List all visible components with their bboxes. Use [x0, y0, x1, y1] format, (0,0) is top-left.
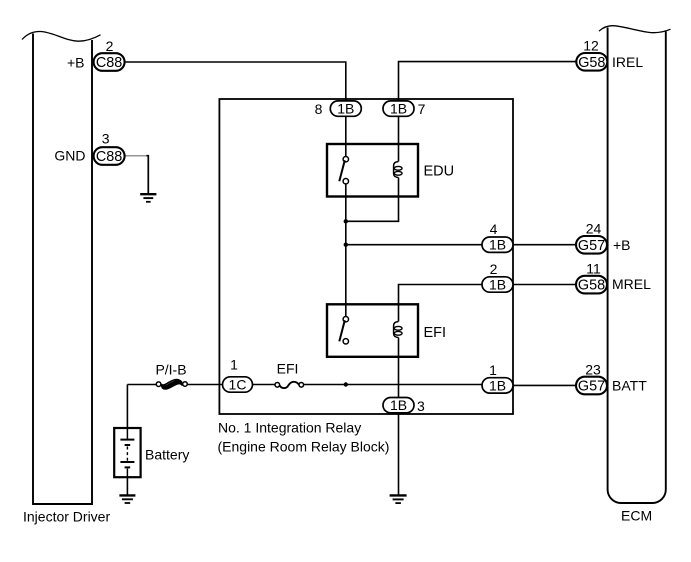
svg-text:23: 23	[585, 362, 601, 378]
connector G57 pin 24	[576, 236, 607, 254]
svg-text:7: 7	[418, 101, 426, 117]
pin 1C (relay box left)	[223, 377, 253, 392]
svg-text:G58: G58	[578, 55, 605, 71]
wire GND from C88 pin3 to ground (horizontal stub printed gray)	[125, 155, 148, 157]
wire: EFI coil bottom to pin 1B-3	[398, 338, 400, 399]
svg-text:G58: G58	[578, 278, 605, 294]
svg-text:8: 8	[315, 101, 323, 117]
svg-text:IREL: IREL	[612, 54, 643, 70]
wire: 1B-7 down to EDU relay coil	[398, 116, 400, 162]
ECM component outline (rounded bottom)	[608, 28, 666, 504]
relay EDU coil	[394, 162, 399, 178]
svg-text:P/I-B: P/I-B	[155, 362, 186, 378]
svg-text:1: 1	[230, 357, 238, 373]
wire BATT horizontal: battery to P/I-B symbol	[127, 384, 156, 386]
svg-text:1B: 1B	[489, 377, 506, 393]
pin 1B-8 (relay box top)	[330, 101, 361, 116]
relay EDU switch lever	[339, 160, 345, 181]
svg-text:4: 4	[490, 221, 498, 237]
wire: pin 1B-2 to EFI relay coil (MREL)	[399, 285, 483, 322]
svg-text:C88: C88	[96, 149, 122, 165]
wire: pin 1B-1 to ECM G57-23	[513, 384, 576, 386]
junction B (+B branch)	[344, 243, 348, 247]
svg-text:C88: C88	[96, 55, 122, 71]
relay EFI box	[327, 304, 418, 357]
wire: 1B-8 down to EDU relay switch	[345, 116, 347, 157]
relay EDU switch contacts	[343, 157, 348, 162]
wire: pin 1B-2 to ECM G58-11 (MREL)	[513, 284, 576, 286]
svg-text:3: 3	[102, 130, 110, 146]
relay EDU box	[327, 144, 418, 197]
junction C (EFI switch on BATT wire)	[344, 382, 348, 386]
pin 1B-1 (relay box right)	[482, 378, 513, 393]
svg-text:BATT: BATT	[612, 378, 647, 394]
svg-text:ECM: ECM	[621, 507, 652, 523]
svg-text:1B: 1B	[390, 101, 407, 117]
svg-text:Battery: Battery	[145, 447, 189, 463]
svg-text:24: 24	[586, 221, 602, 237]
svg-text:EFI: EFI	[277, 361, 299, 377]
wire: junction B to pin 1B-4	[346, 244, 483, 246]
wire +B from C88 pin2 to relay box pin 1B-8	[125, 62, 346, 101]
connector G58 pin 11	[576, 276, 607, 294]
ground (below C88 pin3)	[140, 194, 156, 202]
svg-text:11: 11	[586, 261, 601, 277]
connector C88 pin 2	[94, 53, 125, 71]
connector G58 pin 12	[576, 53, 607, 71]
relay EFI coil	[394, 322, 399, 338]
Injector Driver component outline	[33, 34, 92, 505]
wire: pin 1B-3 to ground	[398, 412, 400, 495]
svg-text:MREL: MREL	[612, 276, 651, 292]
wire: EDU coil return to junction A	[346, 178, 399, 222]
pin 1B-3 (relay box bottom)	[383, 398, 414, 413]
wire: EDU switch to EFI switch (through junctions)	[345, 184, 347, 317]
No.1 Integration Relay box	[219, 99, 513, 414]
Injector Driver torn wavy top	[22, 31, 101, 41]
svg-text:1B: 1B	[489, 237, 506, 253]
svg-text:+B: +B	[613, 237, 631, 253]
twisted shielded wire symbol P/I-B	[156, 380, 187, 389]
wire: P/I-B to connector 1C	[187, 384, 223, 386]
svg-text:G57: G57	[578, 238, 605, 254]
battery	[114, 428, 140, 477]
svg-text:1C: 1C	[229, 376, 247, 392]
relay EFI switch contacts	[343, 317, 348, 322]
relay EFI switch lever	[339, 320, 345, 341]
wire BATT: battery riser	[126, 385, 128, 429]
wire IREL from G58 pin12 to relay box pin 1B-7	[399, 62, 577, 101]
junction A (EDU coil return)	[344, 219, 348, 223]
connector G57 pin 23	[576, 377, 607, 395]
ground (below relay box pin 1B-3)	[390, 495, 407, 503]
svg-text:G57: G57	[578, 379, 605, 395]
svg-text:1B: 1B	[337, 101, 354, 117]
svg-text:EFI: EFI	[424, 325, 447, 341]
fusible link EFI symbol	[275, 382, 304, 388]
svg-text:12: 12	[583, 38, 599, 54]
svg-text:EDU: EDU	[424, 164, 455, 180]
svg-text:2: 2	[490, 261, 498, 277]
connector C88 pin 3	[94, 147, 125, 165]
svg-text:1B: 1B	[489, 276, 506, 292]
svg-text:+B: +B	[67, 54, 85, 70]
wire: connector 1C to fusible link EFI	[253, 384, 275, 386]
pin 1B-2 (relay box right)	[482, 277, 513, 292]
ECM torn wavy top	[599, 26, 671, 33]
svg-text:1: 1	[489, 362, 497, 378]
svg-text:No. 1 Integration Relay: No. 1 Integration Relay	[218, 420, 361, 436]
ground (below battery)	[119, 495, 135, 503]
svg-text:2: 2	[106, 38, 114, 54]
wire: battery to ground	[126, 477, 128, 495]
svg-text:1B: 1B	[390, 397, 407, 413]
svg-text:Injector Driver: Injector Driver	[23, 509, 110, 525]
svg-text:3: 3	[417, 398, 425, 414]
wire: fusible link EFI to pin 1B-1 (BATT line)	[304, 384, 483, 386]
pin 1B-4 (relay box right)	[482, 237, 513, 252]
pin 1B-7 (relay box top)	[383, 101, 414, 116]
svg-text:GND: GND	[54, 148, 85, 164]
svg-text:(Engine Room Relay Block): (Engine Room Relay Block)	[218, 439, 390, 455]
wire: pin 1B-4 to ECM G57-24 (+B)	[513, 244, 576, 246]
